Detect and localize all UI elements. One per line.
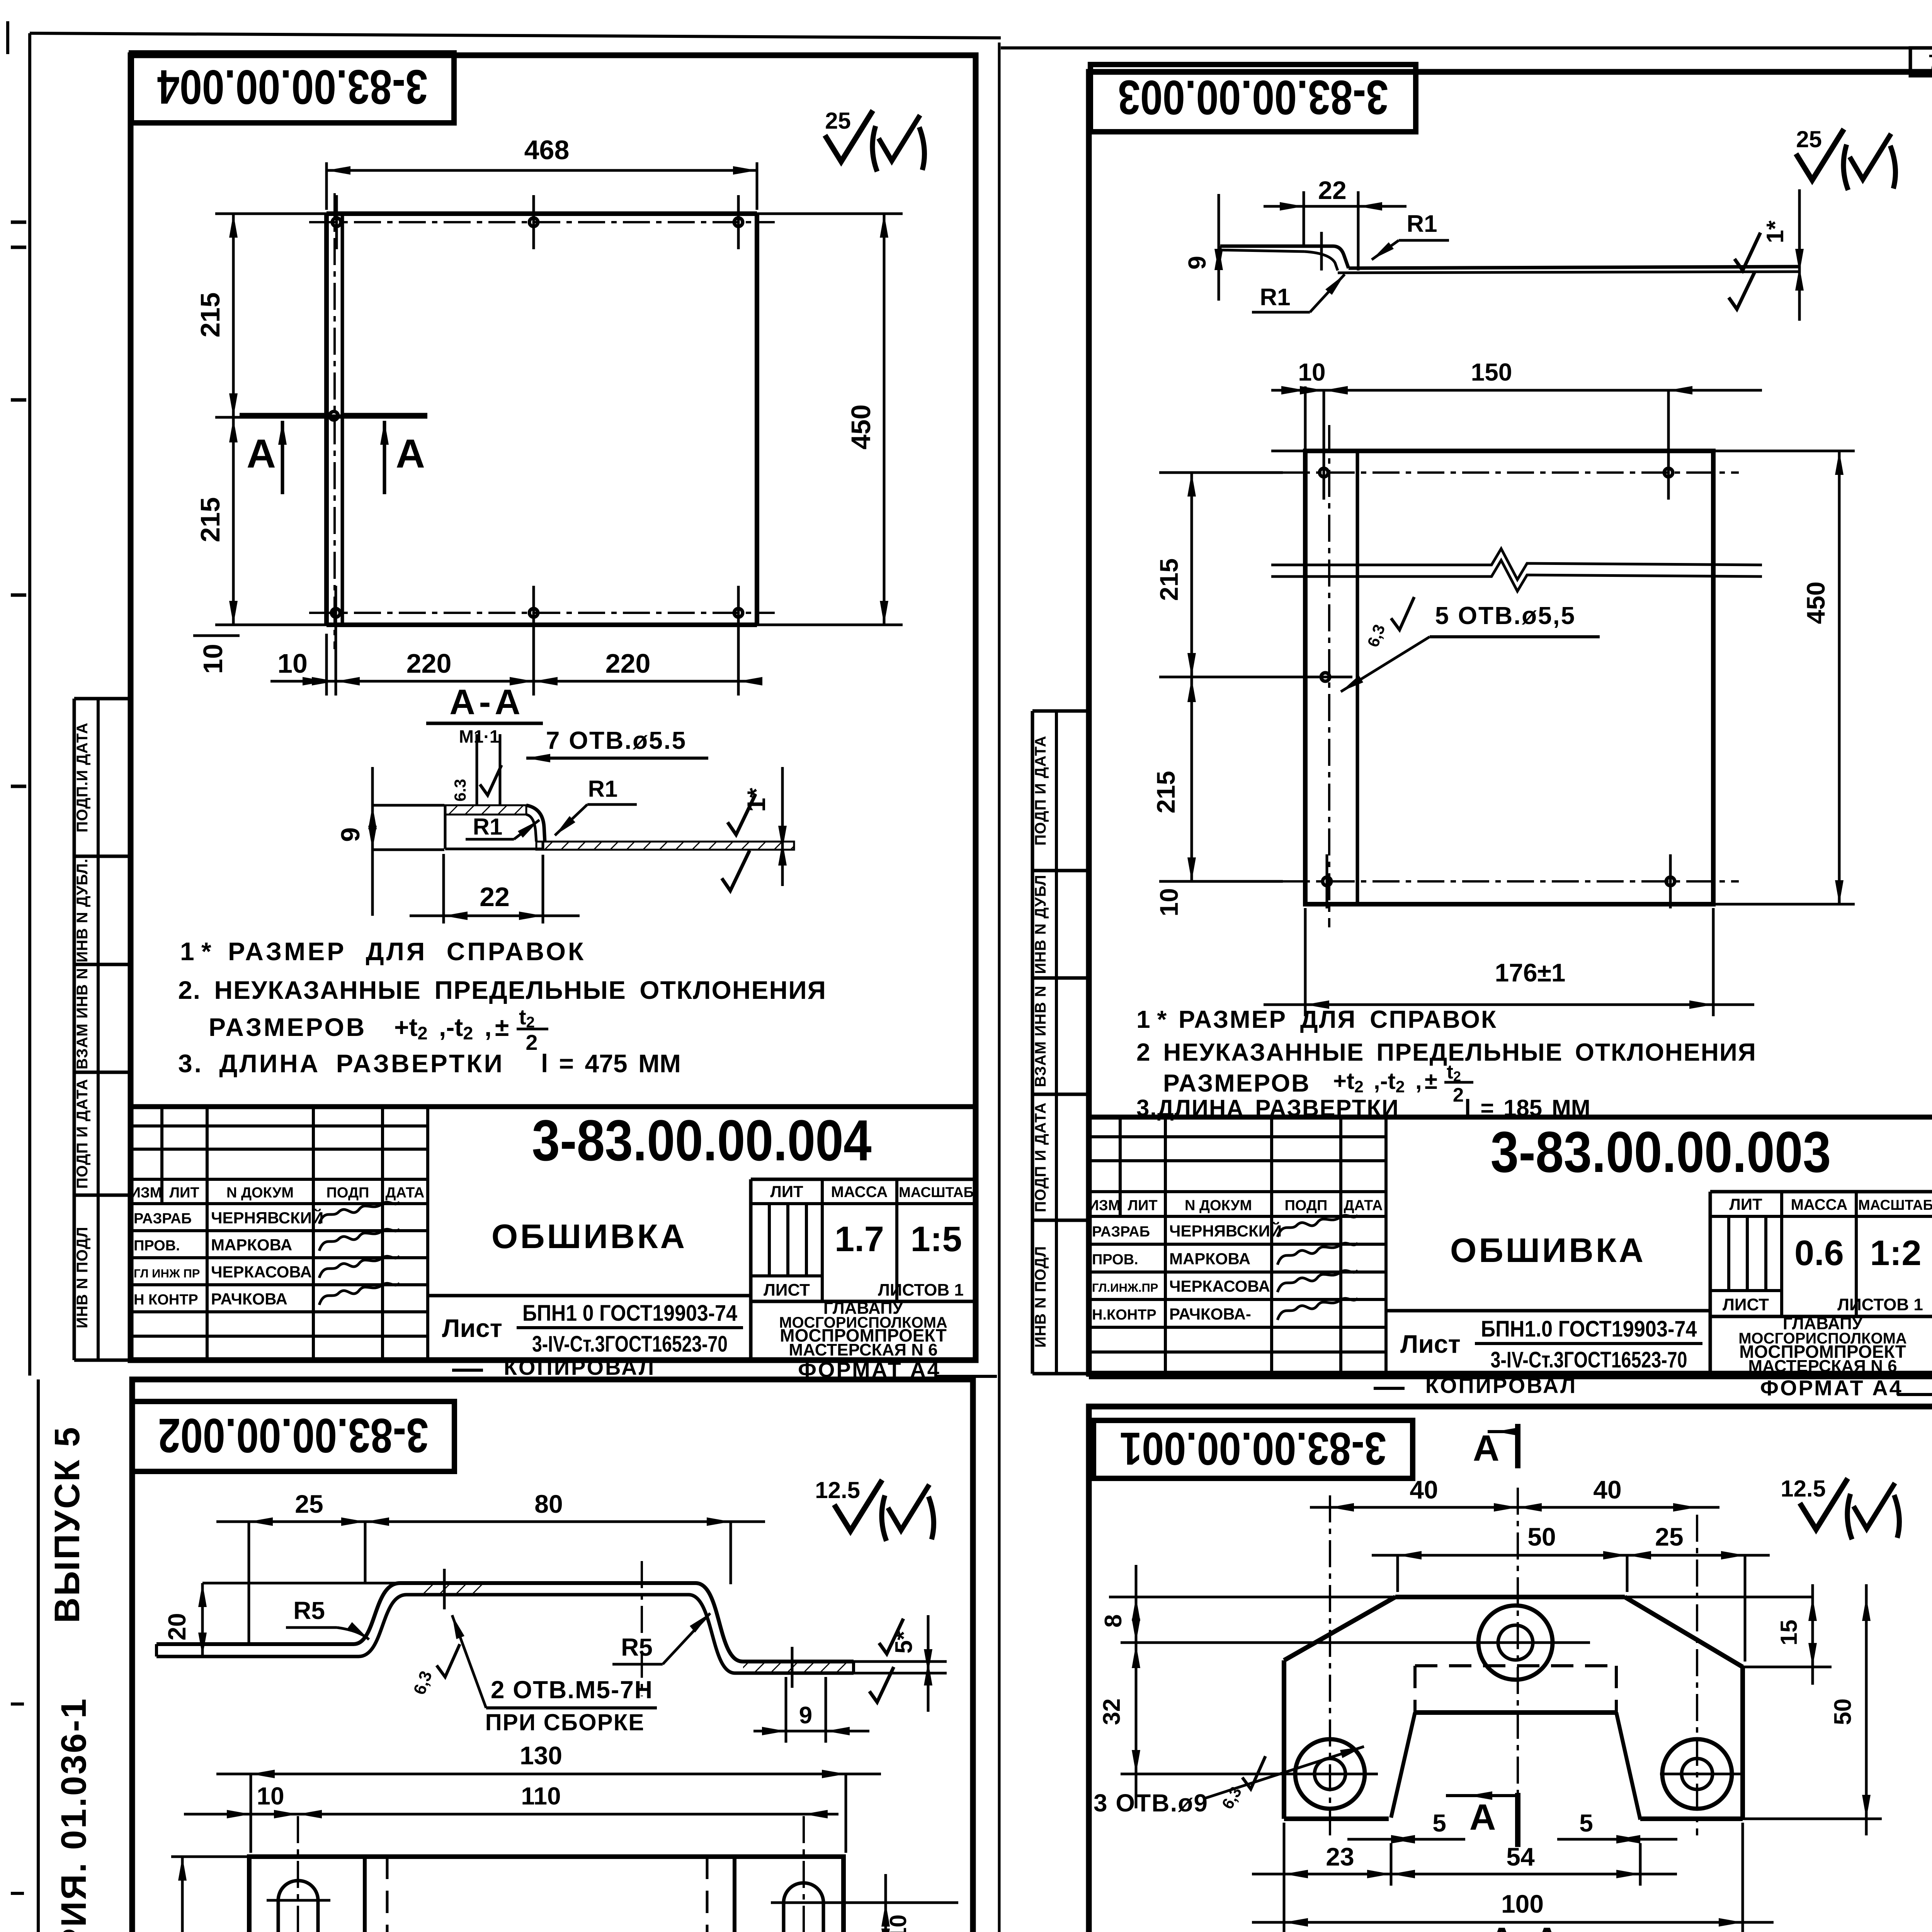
svg-text:450: 450 — [1801, 582, 1830, 624]
svg-text:1*: 1* — [1762, 220, 1789, 243]
svg-text:12.5: 12.5 — [1781, 1476, 1826, 1502]
svg-text:ВЗАМ ИНВ N: ВЗАМ ИНВ N — [1032, 985, 1049, 1087]
svg-text:10: 10 — [257, 1782, 284, 1810]
svg-text:15: 15 — [1776, 1620, 1802, 1646]
svg-text:130: 130 — [520, 1741, 562, 1770]
svg-text:40: 40 — [1593, 1475, 1621, 1504]
svg-text:25: 25 — [295, 1490, 323, 1518]
svg-text:МАССА: МАССА — [831, 1184, 888, 1201]
svg-text:ИЗМ: ИЗМ — [130, 1185, 162, 1201]
svg-text:МАСШТАБ: МАСШТАБ — [1858, 1197, 1932, 1213]
svg-text:ИНВ N ДУБЛ: ИНВ N ДУБЛ — [1032, 874, 1049, 974]
svg-text:5 ОТВ.ø5,5: 5 ОТВ.ø5,5 — [1435, 602, 1576, 629]
svg-text:R1: R1 — [473, 814, 503, 840]
svg-text:ПОДП И ДАТА: ПОДП И ДАТА — [74, 1079, 91, 1189]
svg-text:22: 22 — [480, 882, 510, 912]
svg-text:ЧЕРКАСОВА: ЧЕРКАСОВА — [211, 1263, 312, 1281]
svg-text:R5: R5 — [621, 1633, 653, 1661]
svg-text:ПРОВ.: ПРОВ. — [134, 1238, 180, 1254]
svg-text:0.6: 0.6 — [1794, 1233, 1844, 1273]
svg-text:3-83.00.00.003: 3-83.00.00.003 — [1490, 1119, 1831, 1184]
svg-text:БПН1 0 ГОСТ19903-74: БПН1 0 ГОСТ19903-74 — [522, 1301, 737, 1326]
svg-text:ЛИСТ: ЛИСТ — [764, 1281, 810, 1299]
svg-text:ЧЕРКАСОВА: ЧЕРКАСОВА — [1169, 1277, 1270, 1295]
svg-text:215: 215 — [195, 293, 225, 338]
svg-text:,: , — [485, 1013, 492, 1041]
svg-text:25: 25 — [1655, 1522, 1683, 1551]
svg-text:40: 40 — [1410, 1475, 1438, 1504]
svg-text:50: 50 — [1830, 1699, 1856, 1725]
svg-text:3-83.00.00.002: 3-83.00.00.002 — [158, 1408, 429, 1462]
svg-text:ПОДП И ДАТА: ПОДП И ДАТА — [1032, 1102, 1049, 1213]
svg-text:3-83.00.00.001: 3-83.00.00.001 — [1120, 1423, 1386, 1475]
svg-text:R5: R5 — [293, 1597, 325, 1624]
svg-text:10: 10 — [277, 648, 308, 679]
svg-text:A-A: A-A — [1489, 1920, 1564, 1932]
svg-text:A: A — [1469, 1797, 1496, 1838]
svg-text:МАСШТАБ: МАСШТАБ — [899, 1184, 974, 1200]
svg-text:МАРКОВА: МАРКОВА — [1169, 1250, 1250, 1268]
svg-text:ПОДП: ПОДП — [1285, 1197, 1328, 1214]
svg-text:БПН1.0 ГОСТ19903-74: БПН1.0 ГОСТ19903-74 — [1481, 1316, 1697, 1342]
svg-text:3-83.00.00.004: 3-83.00.00.004 — [157, 60, 428, 114]
svg-text:ПРОВ.: ПРОВ. — [1092, 1252, 1138, 1268]
svg-text:ДАТА: ДАТА — [386, 1185, 425, 1201]
svg-text:220: 220 — [406, 648, 452, 679]
svg-text:РАЗМЕРОВ: РАЗМЕРОВ — [1163, 1069, 1310, 1097]
svg-text:РАЗМЕР ДЛЯ СПРАВОК: РАЗМЕР ДЛЯ СПРАВОК — [228, 937, 586, 966]
svg-text:ВЗАМ ИНВ N: ВЗАМ ИНВ N — [74, 968, 91, 1069]
svg-text:2 ОТВ.М5-7Н: 2 ОТВ.М5-7Н — [491, 1676, 653, 1704]
svg-text:РАЗМЕРОВ: РАЗМЕРОВ — [209, 1013, 366, 1041]
svg-text:ПОДП.И ДАТА: ПОДП.И ДАТА — [74, 723, 91, 833]
svg-text:ЛИСТОВ 1: ЛИСТОВ 1 — [878, 1281, 964, 1299]
svg-text:Н.КОНТР: Н.КОНТР — [1092, 1307, 1156, 1323]
svg-text:РАЗРАБ: РАЗРАБ — [1092, 1224, 1150, 1240]
svg-text:ИНВ N ПОДЛ: ИНВ N ПОДЛ — [1032, 1246, 1049, 1348]
svg-text:ЧЕРНЯВСКИЙ: ЧЕРНЯВСКИЙ — [211, 1208, 323, 1227]
svg-text:9: 9 — [1183, 256, 1211, 270]
svg-text:25: 25 — [825, 108, 851, 134]
svg-text:ЛИСТОВ 1: ЛИСТОВ 1 — [1837, 1295, 1923, 1314]
svg-text:9: 9 — [799, 1702, 812, 1729]
svg-text:20: 20 — [163, 1613, 191, 1640]
svg-text:220: 220 — [605, 648, 651, 679]
svg-text:ОБШИВКА: ОБШИВКА — [1450, 1231, 1646, 1269]
svg-text:25: 25 — [1796, 126, 1822, 152]
svg-text:ЧЕРНЯВСКИЙ: ЧЕРНЯВСКИЙ — [1169, 1221, 1282, 1240]
svg-text:32: 32 — [1099, 1699, 1125, 1725]
svg-text:80: 80 — [534, 1490, 563, 1518]
svg-text:3-IV-Ст.3ГОСТ16523-70: 3-IV-Ст.3ГОСТ16523-70 — [532, 1332, 728, 1357]
svg-text:5: 5 — [1432, 1809, 1446, 1837]
svg-text:РАЧКОВА: РАЧКОВА — [211, 1290, 287, 1308]
svg-text:ИНВ N ДУБЛ.: ИНВ N ДУБЛ. — [74, 858, 91, 962]
svg-text:100: 100 — [1501, 1889, 1544, 1918]
svg-text:N ДОКУМ: N ДОКУМ — [1185, 1197, 1252, 1214]
svg-text:РАЗРАБ: РАЗРАБ — [134, 1211, 192, 1227]
svg-text:450: 450 — [846, 405, 876, 450]
svg-text:ЛИТ: ЛИТ — [1128, 1197, 1157, 1214]
svg-text:ДАТА: ДАТА — [1344, 1197, 1383, 1214]
svg-text:2: 2 — [1453, 1084, 1464, 1106]
svg-text:ЛИСТ: ЛИСТ — [1723, 1295, 1769, 1314]
svg-text:215: 215 — [195, 497, 225, 543]
svg-text:МАССА: МАССА — [1791, 1196, 1848, 1213]
svg-text:,: , — [1415, 1068, 1422, 1094]
svg-text:ЛИТ: ЛИТ — [169, 1185, 199, 1201]
svg-text:215: 215 — [1151, 771, 1180, 813]
svg-text:468: 468 — [524, 135, 570, 165]
svg-text:8: 8 — [1100, 1614, 1127, 1628]
svg-text:ЛИТ: ЛИТ — [770, 1182, 803, 1201]
svg-text:R1: R1 — [1260, 284, 1290, 311]
svg-text:ВЫПУСК 5: ВЫПУСК 5 — [48, 1425, 87, 1623]
svg-text:КОПИРОВАЛ: КОПИРОВАЛ — [1425, 1373, 1577, 1398]
svg-text:±: ± — [1425, 1068, 1437, 1094]
svg-text:A-A: A-A — [449, 682, 524, 722]
svg-text:R1: R1 — [1406, 211, 1437, 237]
svg-text:110: 110 — [521, 1782, 561, 1810]
svg-text:ИНВ N ПОДЛ: ИНВ N ПОДЛ — [74, 1226, 91, 1328]
svg-text:КОПИРОВАЛ: КОПИРОВАЛ — [504, 1355, 655, 1379]
svg-text:9: 9 — [336, 827, 365, 842]
svg-text:±: ± — [495, 1013, 509, 1041]
svg-text:176±1: 176±1 — [1495, 958, 1565, 987]
svg-text:A: A — [396, 431, 425, 476]
svg-text:5: 5 — [1579, 1809, 1593, 1837]
svg-text:12.5: 12.5 — [815, 1477, 860, 1503]
svg-text:10: 10 — [198, 644, 228, 674]
svg-text:A: A — [1473, 1428, 1500, 1469]
svg-text:РАЧКОВА-: РАЧКОВА- — [1169, 1305, 1251, 1323]
svg-text:50: 50 — [1527, 1522, 1556, 1551]
svg-text:10: 10 — [1298, 358, 1325, 386]
svg-text:Лист: Лист — [1400, 1330, 1461, 1358]
svg-text:ПРИ СБОРКЕ: ПРИ СБОРКЕ — [485, 1709, 645, 1735]
svg-text:Лист: Лист — [442, 1314, 502, 1342]
svg-text:ГЛ ИНЖ ПР: ГЛ ИНЖ ПР — [134, 1267, 200, 1280]
svg-text:3-83.00.00.004: 3-83.00.00.004 — [532, 1108, 871, 1173]
svg-text:215: 215 — [1155, 558, 1183, 601]
svg-text:1:2: 1:2 — [1870, 1233, 1922, 1273]
svg-text:6.3: 6.3 — [451, 779, 469, 801]
svg-text:l = 475 ММ: l = 475 ММ — [541, 1049, 681, 1078]
svg-text:ОБШИВКА: ОБШИВКА — [492, 1217, 687, 1255]
svg-text:2: 2 — [526, 1030, 537, 1054]
svg-text:23: 23 — [1326, 1842, 1354, 1871]
svg-text:ИЗМ: ИЗМ — [1088, 1197, 1121, 1214]
svg-text:3 ОТВ.ø9: 3 ОТВ.ø9 — [1094, 1789, 1208, 1817]
svg-text:2. НЕУКАЗАННЫЕ ПРЕДЕЛЬНЫЕ ОТ: 2. НЕУКАЗАННЫЕ ПРЕДЕЛЬНЫЕ ОТКЛОНЕНИЯ — [178, 976, 827, 1004]
svg-text:A: A — [247, 431, 276, 476]
svg-text:РАЗМЕР ДЛЯ СПРАВОК: РАЗМЕР ДЛЯ СПРАВОК — [1179, 1005, 1497, 1033]
svg-text:10: 10 — [1155, 888, 1183, 916]
svg-text:СЕРИЯ. 01.036-1: СЕРИЯ. 01.036-1 — [54, 1697, 94, 1932]
svg-text:МАСТЕРСКАЯ N 6: МАСТЕРСКАЯ N 6 — [789, 1340, 937, 1359]
svg-text:7 ОТВ.ø5.5: 7 ОТВ.ø5.5 — [546, 726, 687, 754]
svg-text:ПОДП: ПОДП — [327, 1185, 369, 1201]
svg-text:3. ДЛИНА РАЗВЕРТКИ: 3. ДЛИНА РАЗВЕРТКИ — [178, 1049, 504, 1078]
svg-text:3-83.00.00.003: 3-83.00.00.003 — [1118, 70, 1388, 124]
svg-text:М1·1: М1·1 — [459, 726, 500, 747]
svg-text:1*: 1* — [742, 787, 770, 812]
svg-text:МАРКОВА: МАРКОВА — [211, 1236, 292, 1254]
svg-text:R1: R1 — [588, 776, 618, 802]
svg-text:54: 54 — [1506, 1842, 1535, 1871]
svg-text:150: 150 — [1471, 358, 1512, 386]
svg-text:ФОРМАТ А4: ФОРМАТ А4 — [1760, 1376, 1903, 1400]
svg-text:1 *: 1 * — [1136, 1005, 1167, 1033]
svg-text:10: 10 — [885, 1915, 911, 1932]
svg-text:ЛИТ: ЛИТ — [1729, 1195, 1762, 1213]
svg-text:1 *: 1 * — [180, 937, 211, 966]
svg-text:7: 7 — [1928, 50, 1932, 74]
svg-text:N ДОКУМ: N ДОКУМ — [226, 1185, 294, 1201]
svg-text:ПОДП И ДАТА: ПОДП И ДАТА — [1032, 736, 1049, 846]
svg-text:ГЛ.ИНЖ.ПР: ГЛ.ИНЖ.ПР — [1092, 1281, 1158, 1294]
svg-text:1:5: 1:5 — [911, 1219, 962, 1259]
svg-text:22: 22 — [1318, 176, 1346, 204]
svg-text:1.7: 1.7 — [835, 1219, 884, 1259]
svg-text:Н КОНТР: Н КОНТР — [134, 1292, 198, 1308]
svg-text:МАСТЕРСКАЯ N 6: МАСТЕРСКАЯ N 6 — [1748, 1357, 1897, 1376]
svg-text:3-IV-Ст.3ГОСТ16523-70: 3-IV-Ст.3ГОСТ16523-70 — [1491, 1347, 1687, 1372]
